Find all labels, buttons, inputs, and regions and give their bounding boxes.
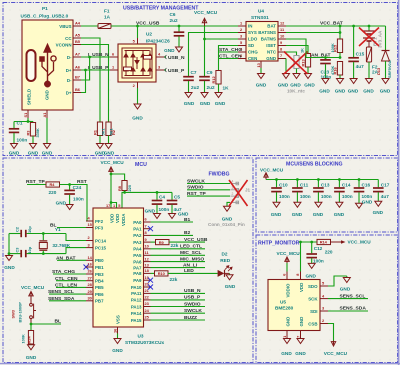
crystal rail bottom (9, 248, 86, 254)
svg-text:C10: C10 (279, 182, 288, 187)
svg-text:220: 220 (325, 249, 333, 254)
power arrow VCC_MCU switch (29, 292, 33, 298)
svg-text:22k: 22k (170, 277, 178, 282)
junction at C6 (178, 25, 181, 28)
svg-text:VSS: VSS (115, 315, 120, 324)
wire CC to R1 (81, 38, 100, 122)
junction C12 tap (310, 241, 313, 244)
svg-text:B7: B7 (75, 75, 80, 80)
svg-text:C5: C5 (174, 195, 180, 200)
wire STA_CHG to PB3 (53, 273, 86, 275)
P1 pin stub A4 (73, 25, 81, 27)
svg-text:LDO: LDO (248, 37, 258, 42)
wire PA3 to R9 (151, 241, 156, 243)
svg-text:PA14: PA14 (131, 311, 142, 316)
wire switch to R24 (30, 324, 32, 331)
svg-text:100n: 100n (300, 194, 311, 199)
ground under C23 (322, 79, 329, 84)
wire VCONN to R2 (81, 45, 109, 122)
svg-text:C15: C15 (356, 52, 365, 57)
wire RST_TP to R4 (27, 184, 46, 186)
svg-text:GND: GND (299, 317, 304, 327)
wire PA8 to R10 (151, 272, 155, 274)
svg-text:PB7: PB7 (95, 299, 104, 304)
power arrow VCC_MCU (202, 18, 206, 26)
svg-text:GND: GND (4, 265, 15, 270)
ground under C11 (294, 202, 301, 207)
wire J1 to ground (227, 202, 230, 206)
wire AN_BAT to PB0 (57, 259, 86, 261)
junction at U2 pin5 (136, 25, 139, 28)
svg-text:SDI: SDI (310, 309, 317, 314)
wire VCC_USB rail (111, 25, 239, 27)
wire SYS to C7 (189, 33, 239, 77)
connector P1 body (22, 20, 73, 110)
wire PA0 B1 (151, 221, 194, 223)
svg-text:100K: 100K (330, 43, 335, 52)
svg-text:PB0: PB0 (95, 258, 104, 263)
wire shield horizontal to R3 (28, 121, 33, 123)
wire rail to U2 pin5 (137, 26, 139, 38)
junction VDD node (299, 241, 302, 244)
resistor R8 (122, 181, 127, 193)
svg-text:22k: 22k (171, 243, 179, 248)
ground under R2 (105, 144, 112, 149)
svg-text:GND: GND (132, 116, 143, 121)
junction rail C11 (296, 178, 299, 181)
resistor R24 (28, 331, 33, 345)
wire blocking rail (266, 179, 378, 181)
resistor R14 (317, 239, 331, 244)
svg-text:PA5: PA5 (133, 253, 142, 258)
svg-text:C7: C7 (191, 70, 197, 75)
svg-text:R12: R12 (211, 76, 216, 84)
wire PA15 BUZZ (151, 319, 206, 321)
junction A7/B7 (88, 56, 91, 59)
ground under F2 (366, 79, 373, 84)
U3 right pin stubs (144, 222, 151, 320)
ground under C10 (273, 202, 280, 207)
wire BATMS to divider (286, 39, 340, 58)
svg-text:C2: C2 (15, 226, 20, 232)
U2 pin stub 1 (110, 69, 118, 71)
junction rail C14 (338, 178, 341, 181)
svg-text:AN_BAT: AN_BAT (311, 53, 330, 59)
connector J1 (DNP) (230, 182, 238, 204)
svg-text:10p: 10p (27, 246, 32, 253)
svg-text:GND: GND (373, 210, 384, 215)
capacitor C5 (167, 192, 178, 213)
capacitor C13 (313, 180, 324, 203)
svg-text:GND: GND (285, 317, 290, 327)
svg-text:GND: GND (26, 355, 37, 360)
svg-text:R1: R1 (93, 129, 98, 135)
ground under R1 (97, 144, 104, 149)
svg-text:Conn_01x04_Pin: Conn_01x04_Pin (208, 222, 245, 227)
sheet bottom border (0, 363, 400, 365)
diode D13 TVS (382, 26, 390, 79)
svg-text:GND: GND (184, 101, 195, 106)
svg-text:C24: C24 (73, 185, 82, 190)
ground under C12 (308, 263, 315, 268)
svg-text:GND: GND (28, 151, 39, 156)
svg-text:PA10: PA10 (131, 285, 142, 290)
resistor R13 (305, 54, 310, 74)
svg-text:PC14: PC14 (95, 238, 107, 243)
mcu U3 body (93, 208, 144, 327)
svg-text:C6: C6 (170, 12, 176, 17)
junction rail at C15 (352, 25, 355, 28)
wire LDO horizontal (205, 38, 239, 40)
P1 pin stub B5 (73, 44, 81, 46)
wire CEN (219, 58, 238, 60)
wire CSB to VCC_MCU (328, 324, 334, 341)
svg-text:GND: GND (56, 201, 67, 206)
resistor R12 (216, 71, 221, 93)
svg-text:D13: D13 (376, 67, 381, 75)
U4 pin stub 5 (238, 45, 246, 47)
svg-text:100n: 100n (17, 138, 28, 143)
svg-text:220: 220 (49, 190, 57, 195)
wire U2 pin2 to ground (137, 88, 139, 104)
ground under U4 GND pin (283, 74, 290, 79)
junction A6/B6 (84, 69, 87, 72)
ground under D2 (226, 273, 233, 279)
svg-text:100n: 100n (73, 197, 84, 202)
svg-text:IN: IN (248, 24, 252, 29)
svg-text:100n: 100n (342, 194, 353, 199)
crystal rail top (9, 234, 86, 241)
U5 pin stub VDDIO (286, 272, 288, 280)
svg-text:GND: GND (348, 89, 359, 94)
svg-text:STM32U073KCUx: STM32U073KCUx (125, 340, 164, 345)
U3 left pin stubs (86, 221, 93, 301)
crystal Y1 (39, 234, 47, 254)
svg-text:A4: A4 (75, 21, 81, 26)
DNP cross thermistor (284, 52, 308, 75)
svg-text:MIC_MISO: MIC_MISO (180, 256, 204, 262)
svg-text:PB3: PB3 (95, 272, 104, 277)
ground under crystal caps (6, 256, 13, 261)
fuse F1 (98, 24, 111, 29)
U4 pin stub 6 (238, 58, 246, 60)
wire rail down to R15 (339, 26, 341, 39)
ground under R16 (337, 79, 344, 84)
svg-text:A5: A5 (75, 33, 81, 38)
svg-text:VCC_MCU: VCC_MCU (324, 351, 348, 356)
capacitor C16 (354, 180, 365, 204)
ground under thermistor (293, 74, 300, 79)
P1 pin stub A6 (73, 69, 81, 71)
svg-text:VDD: VDD (299, 283, 304, 292)
ground under U5 GND2 (297, 339, 304, 344)
svg-text:PB6: PB6 (95, 292, 104, 297)
battery BT1 (DNP) (363, 26, 375, 47)
svg-text:PA1: PA1 (133, 227, 142, 232)
capacitor C12 (306, 242, 317, 263)
svg-text:100n: 100n (313, 258, 324, 263)
svg-text:D+: D+ (66, 68, 72, 73)
svg-text:MCU/SENS BLOCKING: MCU/SENS BLOCKING (286, 162, 343, 168)
svg-text:R8: R8 (117, 185, 122, 191)
section box RHTP_MONITOR (256, 235, 398, 363)
svg-text:GND: GND (266, 56, 276, 61)
svg-text:4u7: 4u7 (381, 194, 389, 199)
svg-text:C1: C1 (17, 121, 23, 126)
global label USB_P (164, 68, 185, 74)
svg-text:C3: C3 (15, 247, 20, 253)
junction VDD node (110, 201, 113, 204)
U2 pin stub 2 (137, 82, 139, 88)
ground under C7 (185, 93, 192, 98)
svg-text:GND: GND (334, 212, 345, 217)
svg-text:B6: B6 (75, 87, 81, 92)
ground under C17 (375, 201, 382, 206)
svg-text:A1: A1 (42, 112, 47, 118)
fuse F2 (366, 47, 371, 62)
thermistor TH1 10K_ntc (DNP) (292, 56, 301, 69)
wire PA12 USB_P (151, 299, 206, 301)
svg-text:USB_P: USB_P (168, 68, 185, 74)
ground under C24 (66, 205, 73, 210)
svg-text:GND: GND (363, 89, 374, 94)
svg-text:BUZZ: BUZZ (184, 315, 197, 321)
svg-text:C16: C16 (362, 182, 371, 187)
svg-text:100n: 100n (321, 194, 332, 199)
svg-text:USB/BATTERY MANAGEMENT: USB/BATTERY MANAGEMENT (123, 6, 199, 12)
resistor R16 (337, 62, 342, 79)
svg-text:PC15: PC15 (95, 245, 107, 250)
svg-text:A7: A7 (75, 52, 80, 57)
svg-text:4u7: 4u7 (356, 64, 364, 69)
wire D+ A6 to U2 (81, 69, 110, 71)
svg-text:17: 17 (106, 203, 110, 208)
svg-text:GND: GND (313, 212, 324, 217)
U4 pin stub 1 (238, 25, 246, 27)
svg-text:PA0: PA0 (133, 220, 142, 225)
U2 pin stub 6 (110, 56, 118, 58)
svg-text:2u2: 2u2 (207, 85, 215, 90)
U3 left pin names (95, 219, 107, 304)
U4 pin stub 11 (278, 32, 286, 34)
svg-text:GND: GND (145, 209, 156, 214)
junction rail C13 (317, 178, 320, 181)
capacitor C14 (334, 180, 345, 203)
led D2 (218, 266, 233, 277)
capacitor C11 (292, 180, 303, 203)
junction rail at R15 (339, 25, 342, 28)
svg-text:J1: J1 (245, 188, 251, 193)
wire BL to PF3 (57, 227, 86, 229)
svg-text:GND: GND (340, 287, 351, 292)
svg-text:PF3: PF3 (95, 225, 104, 230)
svg-text:PA8: PA8 (133, 271, 142, 276)
wire VDD node horizontal (301, 241, 318, 243)
junction rail at BT1 (368, 25, 371, 28)
section box MCU/SENS BLOCKING (256, 158, 398, 232)
U5 pin stub SDI (320, 310, 328, 312)
wire CTL_CEN to PB4 (56, 280, 86, 282)
ground under C16 (356, 203, 363, 208)
svg-text:BAT: BAT (267, 24, 276, 29)
capacitor C2 (21, 230, 26, 237)
svg-text:PA7: PA7 (133, 265, 142, 270)
svg-text:10p: 10p (27, 226, 32, 233)
junction rail C16 (358, 178, 361, 181)
junction crystal top (42, 232, 45, 235)
U4 pin stub 10 (278, 38, 286, 40)
svg-text:NTC: NTC (267, 50, 277, 55)
ground under R3 (30, 144, 37, 149)
svg-text:R24: R24 (27, 336, 32, 344)
USB logo oval (27, 50, 36, 81)
svg-text:PB1: PB1 (95, 265, 104, 270)
svg-text:STNS01: STNS01 (251, 15, 269, 20)
wire U4 pad to ground (260, 68, 262, 74)
svg-text:PB5: PB5 (95, 285, 104, 290)
U4 pin stub 2 (238, 32, 246, 34)
svg-text:GND: GND (305, 274, 316, 279)
svg-text:R3: R3 (26, 130, 31, 136)
junction C4 (156, 191, 159, 194)
svg-text:10: 10 (145, 244, 149, 249)
svg-text:7: 7 (280, 53, 282, 58)
svg-text:7: 7 (145, 223, 147, 228)
svg-text:GND: GND (222, 216, 233, 221)
wire SENS_SCL to PB6 (49, 293, 86, 295)
U5 pin stub GND2 (300, 331, 302, 339)
ground under C6 (176, 47, 183, 52)
capacitor C7 (183, 77, 194, 93)
ground under C5 (169, 214, 176, 219)
svg-text:C9: C9 (207, 70, 213, 75)
wire thermistor to ground (296, 69, 298, 74)
svg-text:MIC_SCL: MIC_SCL (180, 250, 201, 256)
U2 pin stub 5 (137, 38, 139, 44)
P1 pin stub A5 (73, 37, 81, 39)
P1 pin stub A7 (73, 56, 81, 58)
U5 pin stub SCK (320, 298, 328, 300)
ground under C15 (350, 79, 357, 84)
svg-text:C14: C14 (342, 182, 351, 187)
svg-text:GND: GND (225, 284, 236, 289)
wire D- A7 to U2 (81, 56, 110, 58)
wire PA11 USB_N (151, 292, 206, 294)
U3 right pin names (131, 220, 142, 323)
svg-text:C11: C11 (300, 182, 309, 187)
svg-text:SRF5V0A: SRF5V0A (387, 60, 392, 78)
ground under C4 (154, 214, 161, 219)
wire CTL_LEN to PB5 (56, 286, 86, 288)
svg-text:VCC_MCU: VCC_MCU (260, 167, 284, 172)
junction BL node (30, 323, 33, 326)
U4 pin stub 3 (238, 38, 246, 40)
svg-text:ISET: ISET (266, 43, 276, 48)
svg-text:S1: S1 (23, 112, 28, 118)
power arrow VCC_MCU blocking (264, 173, 268, 180)
svg-text:C13: C13 (321, 182, 330, 187)
svg-text:P1: P1 (42, 6, 48, 11)
resistor R1 (97, 122, 102, 144)
wire U4 GND pin to ground (285, 59, 287, 74)
U5 pin stub GND1 (286, 331, 288, 339)
svg-text:SW3: SW3 (11, 309, 16, 318)
U5 pin stub VDD (300, 272, 302, 280)
svg-text:1K: 1K (299, 48, 304, 53)
sheet right border (398, 0, 400, 365)
wire SHIELD down (14, 118, 28, 122)
svg-text:330K: 330K (35, 128, 40, 137)
svg-text:PA3: PA3 (133, 240, 142, 245)
wire PA14 SWCLK (151, 312, 206, 314)
svg-text:VDD: VDD (110, 214, 115, 223)
U5 pin stub SDO (320, 285, 328, 287)
junction C23 tap (324, 56, 327, 59)
wire PA7 AN_LI (151, 267, 206, 269)
svg-text:VDDA: VDDA (121, 213, 126, 226)
svg-text:10: 10 (280, 34, 284, 39)
svg-text:CSB: CSB (308, 322, 317, 327)
svg-text:2u2: 2u2 (170, 18, 178, 23)
P1 pin stub A1 (46, 110, 48, 118)
svg-text:GND: GND (335, 89, 346, 94)
svg-text:U4: U4 (258, 9, 264, 14)
svg-text:GND: GND (112, 348, 123, 353)
svg-text:VCC_MCU: VCC_MCU (101, 160, 125, 165)
P1 pin stub B7 (73, 79, 81, 81)
svg-text:RST_TP: RST_TP (26, 179, 45, 185)
svg-text:R13: R13 (300, 59, 305, 67)
wire VDD vertical (300, 242, 302, 272)
svg-text:IP4234CZ6: IP4234CZ6 (146, 39, 170, 44)
svg-text:CHG: CHG (248, 50, 258, 55)
wire PA6 MIC_MISO (151, 261, 206, 263)
svg-text:220: 220 (127, 185, 132, 192)
svg-text:C4: C4 (159, 195, 165, 200)
svg-text:VCC_MCU: VCC_MCU (21, 285, 45, 290)
wire PA4 LED_CTL (151, 248, 206, 250)
capacitor C1 (9, 122, 19, 144)
esd array U2 body (118, 44, 156, 82)
wire PA5 MIC_SCL (151, 254, 206, 256)
resistor R2 (106, 122, 111, 144)
wire F2 to ground (368, 62, 370, 79)
svg-text:RHTP_MONITOR: RHTP_MONITOR (258, 241, 300, 247)
no-connect PA1 (148, 226, 153, 231)
svg-text:GND: GND (380, 89, 391, 94)
U4 pin stub 7 (278, 58, 286, 60)
ground at SDO (343, 276, 350, 283)
svg-text:PA9: PA9 (133, 278, 142, 283)
svg-text:GND: GND (9, 151, 20, 156)
capacitor C24 (64, 185, 75, 205)
capacitor C17 (373, 180, 384, 202)
junction divider mid (339, 56, 342, 59)
svg-text:VCC_MCU: VCC_MCU (348, 240, 372, 245)
J1 pin numbers (232, 180, 234, 203)
svg-text:LED: LED (184, 268, 194, 274)
svg-text:B2: B2 (184, 230, 191, 236)
svg-text:D-: D- (67, 55, 72, 60)
wire BATSNS (286, 32, 340, 34)
svg-text:GND: GND (292, 212, 303, 217)
power arrow VCC_MCU above U3 (109, 167, 113, 173)
ground under R13 (305, 74, 312, 79)
wire PA2 B2 (151, 234, 194, 236)
no-connect PB1 (84, 265, 89, 270)
svg-text:SHIELD: SHIELD (27, 89, 32, 105)
section box USB/BATTERY MANAGEMENT (3, 3, 398, 156)
